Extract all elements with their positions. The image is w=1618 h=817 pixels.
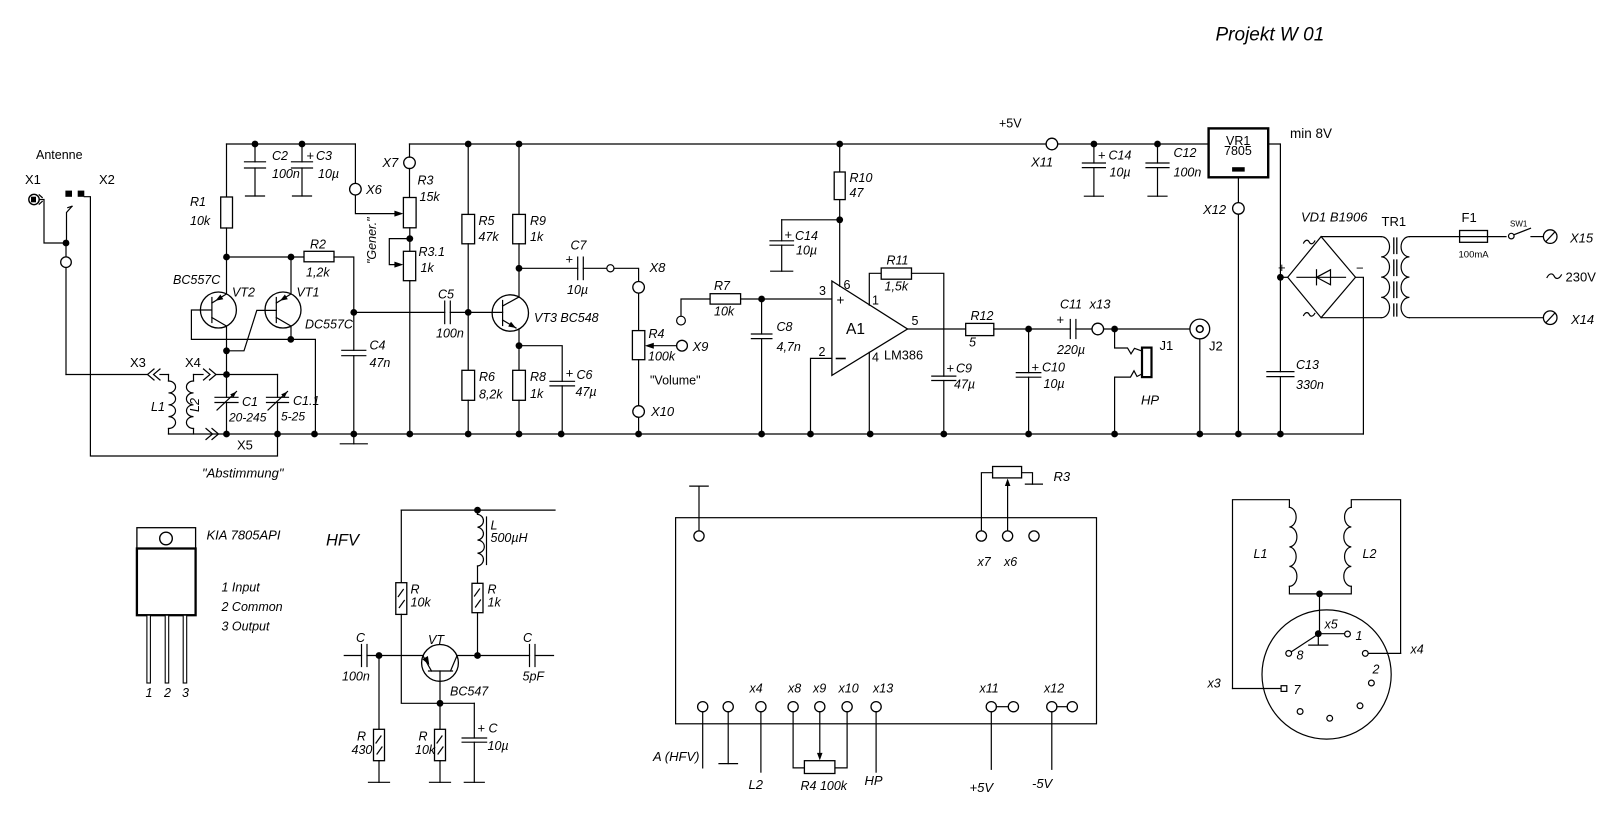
- svg-text:10µ: 10µ: [1110, 166, 1131, 180]
- svg-text:VT1: VT1: [297, 286, 320, 300]
- svg-text:x10: x10: [838, 682, 859, 696]
- svg-text:L1: L1: [151, 400, 165, 414]
- svg-text:10µ: 10µ: [796, 244, 817, 258]
- svg-text:X7: X7: [381, 155, 399, 170]
- svg-text:x3: x3: [1207, 677, 1221, 691]
- svg-text:R: R: [357, 730, 366, 744]
- svg-text:10µ: 10µ: [1044, 377, 1065, 391]
- svg-text:C3: C3: [316, 149, 332, 163]
- svg-text:+: +: [566, 252, 574, 267]
- svg-text:3 Output: 3 Output: [222, 620, 270, 634]
- svg-text:+: +: [566, 366, 574, 381]
- svg-text:L2: L2: [1363, 547, 1377, 561]
- svg-text:47µ: 47µ: [576, 385, 597, 399]
- svg-text:HP: HP: [865, 773, 883, 788]
- svg-text:10µ: 10µ: [488, 739, 509, 753]
- svg-text:10k: 10k: [411, 596, 432, 610]
- svg-text:2 Common: 2 Common: [221, 600, 283, 614]
- svg-text:"Volume": "Volume": [650, 374, 701, 388]
- svg-text:1,2k: 1,2k: [306, 266, 330, 280]
- svg-text:47n: 47n: [370, 356, 391, 370]
- svg-text:C6: C6: [577, 368, 593, 382]
- svg-text:C2: C2: [272, 149, 288, 163]
- svg-text:"Gener.": "Gener.": [365, 217, 379, 264]
- svg-text:100n: 100n: [272, 167, 300, 181]
- svg-text:Antenne: Antenne: [36, 148, 83, 162]
- svg-text:R5: R5: [479, 214, 495, 228]
- svg-text:8,2k: 8,2k: [479, 388, 503, 402]
- svg-text:+: +: [947, 361, 955, 376]
- svg-text:1,5k: 1,5k: [885, 280, 909, 294]
- svg-text:X2: X2: [99, 172, 115, 187]
- svg-text:"Abstimmung": "Abstimmung": [202, 466, 285, 481]
- svg-text:BC547: BC547: [450, 685, 489, 699]
- svg-text:DC557C: DC557C: [305, 318, 354, 332]
- svg-text:X5: X5: [237, 438, 253, 453]
- svg-text:1: 1: [872, 294, 879, 308]
- svg-text:100n: 100n: [1174, 166, 1202, 180]
- svg-text:C1: C1: [242, 395, 258, 409]
- svg-text:R11: R11: [887, 254, 909, 268]
- svg-text:+: +: [307, 148, 315, 163]
- svg-text:x4: x4: [749, 682, 763, 696]
- svg-text:X12: X12: [1202, 202, 1227, 217]
- svg-text:6: 6: [844, 278, 851, 292]
- svg-text:1k: 1k: [421, 261, 435, 275]
- svg-text:x13: x13: [1089, 297, 1112, 312]
- svg-text:+: +: [1278, 260, 1286, 275]
- svg-text:R: R: [419, 730, 428, 744]
- svg-text:min 8V: min 8V: [1290, 126, 1332, 141]
- svg-text:X9: X9: [692, 339, 709, 354]
- svg-text:HP: HP: [1141, 393, 1159, 408]
- svg-text:4,7n: 4,7n: [777, 340, 801, 354]
- svg-text:R4: R4: [649, 327, 665, 341]
- svg-text:C14: C14: [1109, 149, 1132, 163]
- svg-text:1k: 1k: [530, 387, 544, 401]
- svg-text:KIA 7805API: KIA 7805API: [207, 528, 281, 543]
- svg-text:10µ: 10µ: [567, 283, 588, 297]
- svg-text:x6: x6: [1003, 555, 1017, 569]
- svg-text:R: R: [411, 583, 420, 597]
- svg-text:C11: C11: [1060, 298, 1082, 312]
- svg-text:X1: X1: [25, 172, 41, 187]
- svg-text:x13: x13: [872, 682, 893, 696]
- svg-text:R12: R12: [971, 309, 994, 323]
- svg-text:+: +: [1032, 360, 1040, 375]
- svg-text:430: 430: [352, 743, 373, 757]
- svg-text:1: 1: [1356, 629, 1363, 643]
- svg-text:R8: R8: [530, 370, 546, 384]
- svg-text:VD1 B1906: VD1 B1906: [1301, 210, 1368, 225]
- svg-text:+: +: [1098, 148, 1106, 163]
- svg-text:R9: R9: [530, 214, 546, 228]
- svg-text:+: +: [837, 293, 845, 308]
- svg-text:X3: X3: [130, 355, 146, 370]
- svg-text:x8: x8: [787, 682, 801, 696]
- svg-text:10µ: 10µ: [318, 167, 339, 181]
- svg-text:1 Input: 1 Input: [222, 581, 261, 595]
- svg-text:3: 3: [182, 686, 189, 700]
- svg-text:A1: A1: [846, 321, 865, 338]
- svg-text:15k: 15k: [420, 190, 441, 204]
- svg-text:500µH: 500µH: [491, 531, 529, 545]
- svg-text:10k: 10k: [190, 214, 211, 228]
- svg-text:Projekt W 01: Projekt W 01: [1216, 25, 1325, 46]
- svg-text:7805: 7805: [1224, 144, 1252, 158]
- svg-text:C14: C14: [795, 229, 818, 243]
- svg-text:100n: 100n: [342, 670, 370, 684]
- svg-text:X8: X8: [649, 260, 667, 275]
- svg-text:R2: R2: [310, 238, 326, 252]
- svg-text:J1: J1: [1160, 338, 1174, 353]
- svg-text:TR1: TR1: [1382, 214, 1407, 229]
- svg-text:HFV: HFV: [326, 532, 361, 550]
- svg-text:L2: L2: [749, 777, 764, 792]
- svg-text:R3: R3: [418, 174, 434, 188]
- svg-text:X6: X6: [365, 182, 383, 197]
- svg-text:-5V: -5V: [1032, 776, 1054, 791]
- svg-text:100n: 100n: [436, 327, 464, 341]
- svg-text:X4: X4: [185, 355, 201, 370]
- svg-text:x7: x7: [977, 555, 992, 569]
- svg-text:+: +: [1057, 312, 1065, 327]
- svg-text:1: 1: [146, 686, 153, 700]
- svg-text:7: 7: [1294, 683, 1302, 697]
- svg-text:4: 4: [872, 351, 879, 365]
- svg-text:100mA: 100mA: [1459, 250, 1490, 261]
- svg-text:R: R: [488, 583, 497, 597]
- svg-text:X14: X14: [1570, 312, 1594, 327]
- svg-text:L1: L1: [1254, 547, 1268, 561]
- svg-text:R6: R6: [479, 370, 495, 384]
- svg-text:47µ: 47µ: [954, 378, 975, 392]
- svg-text:R10: R10: [850, 171, 873, 185]
- svg-text:R1: R1: [190, 195, 206, 209]
- svg-text:C10: C10: [1042, 361, 1065, 375]
- svg-text:x12: x12: [1043, 682, 1064, 696]
- svg-text:C13: C13: [1296, 358, 1319, 372]
- svg-text:C5: C5: [438, 288, 454, 302]
- svg-text:5-25: 5-25: [281, 410, 305, 424]
- svg-text:2: 2: [163, 686, 171, 700]
- svg-text:BC557C: BC557C: [173, 273, 221, 287]
- svg-text:+: +: [785, 227, 793, 242]
- svg-text:+: +: [478, 721, 486, 736]
- svg-text:100k: 100k: [648, 350, 676, 364]
- svg-text:1k: 1k: [488, 596, 502, 610]
- svg-text:C7: C7: [571, 239, 588, 253]
- svg-text:8: 8: [1297, 649, 1304, 663]
- svg-text:R7: R7: [714, 279, 731, 293]
- svg-text:5: 5: [912, 314, 919, 328]
- svg-text:X10: X10: [650, 404, 675, 419]
- svg-text:3: 3: [819, 284, 826, 298]
- svg-text:R3: R3: [1054, 469, 1071, 484]
- svg-text:VT3 BC548: VT3 BC548: [534, 311, 599, 325]
- svg-text:VT2: VT2: [232, 286, 255, 300]
- svg-text:LM386: LM386: [884, 348, 923, 363]
- svg-text:C8: C8: [777, 320, 793, 334]
- svg-text:J2: J2: [1209, 339, 1223, 354]
- svg-text:47k: 47k: [479, 230, 500, 244]
- svg-text:230V: 230V: [1566, 270, 1597, 285]
- svg-text:x9: x9: [812, 682, 826, 696]
- svg-text:X15: X15: [1569, 231, 1594, 246]
- svg-text:C: C: [523, 631, 533, 645]
- svg-text:47: 47: [850, 186, 865, 200]
- svg-text:A (HFV): A (HFV): [652, 749, 699, 764]
- svg-text:C9: C9: [956, 362, 972, 376]
- svg-text:5: 5: [969, 336, 976, 350]
- svg-text:R4 100k: R4 100k: [801, 779, 848, 793]
- svg-text:x4: x4: [1410, 643, 1424, 657]
- svg-text:VT: VT: [428, 633, 445, 647]
- svg-text:R3.1: R3.1: [419, 245, 445, 259]
- svg-text:−: −: [1356, 261, 1364, 276]
- svg-text:10k: 10k: [415, 743, 436, 757]
- svg-text:X11: X11: [1030, 155, 1053, 170]
- svg-text:10k: 10k: [714, 305, 735, 319]
- svg-text:C: C: [356, 631, 366, 645]
- svg-text:220µ: 220µ: [1056, 343, 1085, 357]
- svg-text:2: 2: [1372, 663, 1380, 677]
- svg-text:L2: L2: [188, 398, 202, 412]
- svg-text:5pF: 5pF: [523, 670, 546, 684]
- svg-text:1k: 1k: [530, 230, 544, 244]
- svg-text:20-245: 20-245: [228, 411, 267, 425]
- svg-text:x5: x5: [1324, 618, 1338, 632]
- svg-text:SW1: SW1: [1510, 220, 1528, 229]
- svg-text:C4: C4: [370, 339, 386, 353]
- svg-text:330n: 330n: [1296, 378, 1324, 392]
- svg-text:F1: F1: [1462, 210, 1477, 225]
- svg-text:+5V: +5V: [999, 117, 1022, 131]
- svg-text:x11: x11: [979, 682, 999, 696]
- svg-text:C: C: [489, 722, 499, 736]
- svg-text:2: 2: [819, 345, 826, 359]
- svg-text:C12: C12: [1174, 146, 1197, 160]
- svg-text:+5V: +5V: [970, 780, 995, 795]
